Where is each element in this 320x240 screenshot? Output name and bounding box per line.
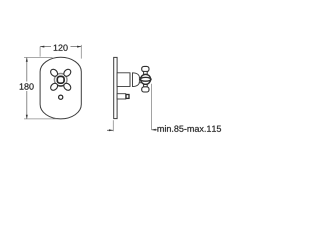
cross handle front: lobe NE bbox=[62, 68, 72, 78]
side diverter stem bbox=[117, 94, 126, 99]
dim 180: dimension line top segment bbox=[26, 58, 28, 82]
dim 180: bottom extension line bbox=[24, 118, 57, 120]
dim min-max: right arrow tail bbox=[152, 129, 158, 131]
dim min-max: right extension line bbox=[151, 84, 153, 130]
dim 180: top extension line bbox=[24, 57, 53, 59]
side handle front spoke (ellipse seen edge-on) bbox=[140, 77, 151, 81]
dim 180: dimension line bottom segment bbox=[26, 91, 28, 119]
dim min-max: label bbox=[158, 125, 222, 132]
side handle bottom lobe bbox=[142, 87, 149, 92]
side view dome cap bbox=[133, 73, 140, 87]
front view wall plate bbox=[40, 57, 81, 119]
side view valve body bbox=[117, 73, 130, 87]
cross handle front: hub ring (rounded square nut) bbox=[57, 76, 64, 83]
dim 120: left extension line bbox=[39, 47, 41, 57]
cross handle front: lobe NW bbox=[49, 68, 59, 78]
cross handle front: lobe SW bbox=[49, 82, 59, 92]
dim 180: label bbox=[20, 83, 34, 89]
dim 120: right extension line bbox=[80, 45, 82, 59]
dim 120: right arrowhead bbox=[77, 46, 81, 48]
diverter button front bbox=[59, 95, 63, 99]
dim 120: label bbox=[54, 45, 68, 51]
side view wall plate bbox=[114, 57, 117, 118]
dim 180: top arrowhead bbox=[26, 58, 28, 62]
side view body ridge line 1 bbox=[129, 73, 131, 87]
side handle hub bbox=[141, 74, 151, 84]
side handle top lobe bbox=[142, 66, 149, 71]
side diverter cap bbox=[126, 95, 129, 99]
cross handle front: lobe SE bbox=[62, 82, 72, 92]
dim 120: dimension line left segment bbox=[40, 46, 51, 48]
cross handle front: base circle bbox=[54, 74, 67, 87]
dim min-max: right arrowhead bbox=[152, 129, 156, 131]
side handle bottom connector bbox=[144, 84, 148, 87]
dim min-max: left extension line bbox=[112, 120, 114, 131]
cross handle front: base circle bottom arc bbox=[56, 84, 65, 86]
dim 180: bottom arrowhead bbox=[26, 115, 28, 119]
cross handle front: hub center bbox=[58, 77, 63, 82]
dim 120: left arrowhead bbox=[40, 46, 44, 48]
side view neck bbox=[139, 77, 141, 82]
dim min-max: left arrowhead bbox=[109, 129, 113, 131]
dim min-max: left arrow tail bbox=[107, 129, 113, 131]
dim 120: dimension line right segment bbox=[71, 46, 82, 48]
side view body collar line 2 bbox=[132, 73, 134, 87]
side handle top connector bbox=[144, 71, 148, 74]
